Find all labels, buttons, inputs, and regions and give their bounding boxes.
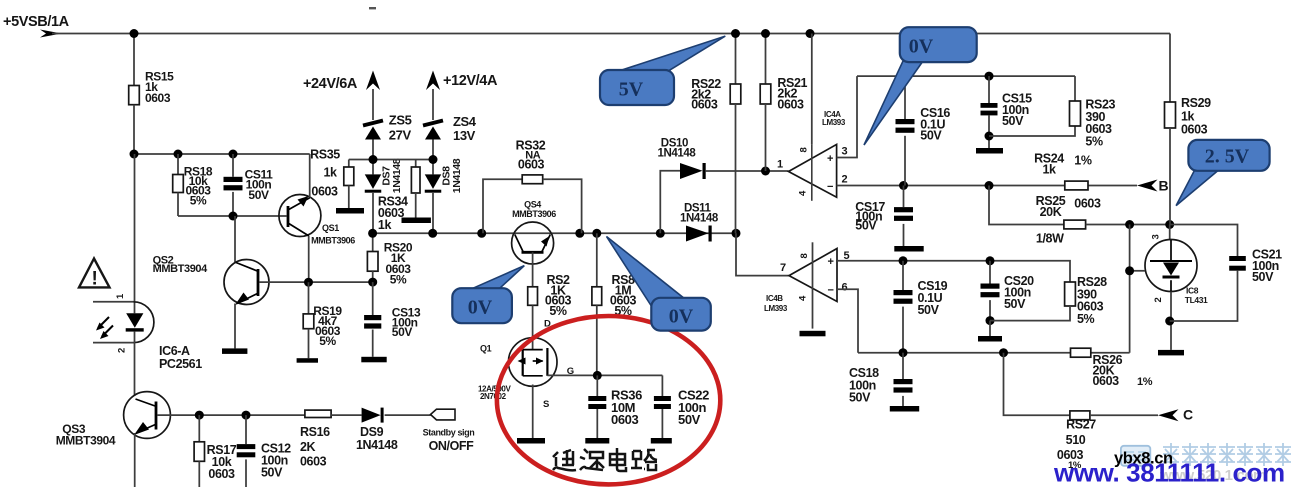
optocoupler IC6-A PC2561 — [93, 301, 135, 303]
node QS1/QS2/RS19 — [304, 278, 313, 287]
svg-text:1: 1 — [777, 159, 783, 171]
svg-text:IC8: IC8 — [1186, 286, 1199, 296]
svg-text:IC4B: IC4B — [766, 294, 783, 303]
svg-text:50V: 50V — [920, 129, 942, 143]
wire QS1 base wire — [178, 215, 287, 217]
ground under CS15 — [976, 148, 1003, 154]
svg-text:−: − — [827, 285, 833, 297]
svg-text:0603: 0603 — [518, 158, 545, 172]
svg-text:6: 6 — [842, 282, 848, 294]
svg-text:1k: 1k — [323, 166, 337, 180]
resistor RS32 — [483, 179, 522, 233]
wire standby net — [199, 414, 305, 416]
wire TL431 cathode — [1169, 225, 1171, 241]
capacitor CS11 — [232, 154, 234, 177]
svg-text:www. 3811111. com: www. 3811111. com — [1053, 458, 1285, 488]
wire QS3 emitter to edge — [134, 433, 136, 487]
svg-text:Standby sign: Standby sign — [423, 428, 475, 438]
svg-text:1k: 1k — [1042, 163, 1056, 177]
callout 0V top — [864, 61, 923, 145]
node base-wire/CS11 — [229, 212, 238, 221]
svg-text:1N4148: 1N4148 — [680, 213, 719, 225]
ground under CS13 — [361, 357, 386, 363]
wire TL431 anode — [1170, 292, 1172, 350]
wire gate wire — [547, 374, 662, 376]
resistor RS8 — [596, 233, 598, 286]
zener ZS5 27V — [363, 121, 383, 126]
transistor QS4 MMBT3906 — [512, 222, 554, 264]
resistor RS2 — [528, 287, 538, 306]
svg-text:IC6-A: IC6-A — [159, 344, 190, 358]
svg-text:!: ! — [92, 269, 98, 290]
svg-text:1N4148: 1N4148 — [658, 148, 697, 160]
svg-text:MMBT3904: MMBT3904 — [56, 434, 116, 448]
wire QS3 base wire — [157, 414, 199, 416]
svg-text:1k: 1k — [1181, 109, 1195, 123]
svg-text:1%: 1% — [1137, 376, 1153, 388]
resistor RS19 — [308, 282, 310, 314]
svg-text:2: 2 — [117, 348, 128, 353]
svg-text:50V: 50V — [1252, 270, 1274, 284]
svg-text:2N7002: 2N7002 — [480, 392, 507, 401]
diode DS9 1N4148 — [362, 408, 381, 423]
svg-text:1%: 1% — [1074, 154, 1092, 168]
node main/RS32-left — [477, 229, 486, 238]
svg-text:2. 5V: 2. 5V — [1205, 146, 1250, 168]
wire right rail drop to RS29 — [1169, 34, 1171, 103]
transistor QS2 MMBT3904 — [224, 260, 269, 305]
node main/RS8 — [592, 229, 601, 238]
wire IC4B pin6 — [837, 289, 858, 353]
svg-text:5%: 5% — [390, 273, 407, 287]
svg-text:50V: 50V — [678, 412, 701, 427]
node standby/RS17 — [195, 411, 204, 420]
node main/DS7 — [368, 229, 377, 238]
svg-text:0V: 0V — [468, 297, 493, 319]
diode DS10 1N4148 — [680, 163, 703, 179]
svg-text:0603: 0603 — [311, 185, 338, 199]
capacitor CS19 — [902, 261, 904, 290]
capacitor CS22 — [661, 375, 663, 396]
svg-text:+: + — [827, 256, 833, 268]
node +5VSB/1A input arrow — [40, 30, 62, 38]
svg-text:0603: 0603 — [145, 91, 171, 105]
svg-text:C: C — [1183, 407, 1193, 423]
svg-text:ZS5: ZS5 — [389, 113, 412, 128]
svg-text:8: 8 — [799, 253, 810, 258]
svg-text:+12V/4A: +12V/4A — [443, 73, 498, 89]
wire QS2 base to node — [259, 281, 309, 283]
ground under TL431 — [1158, 350, 1184, 356]
node pin5/CS20 — [986, 256, 995, 265]
resistor RS22 — [735, 34, 737, 85]
svg-text:PC2561: PC2561 — [159, 357, 202, 371]
node B arrow — [1137, 180, 1158, 192]
callout 0V mid — [607, 237, 685, 308]
svg-text:0603: 0603 — [208, 467, 235, 481]
svg-text:13V: 13V — [453, 128, 476, 143]
ground under CS18 — [890, 406, 919, 412]
resistor RS35 — [348, 160, 350, 168]
resistor RS26 — [1071, 348, 1091, 357]
node CS15 bottom — [985, 132, 994, 141]
svg-text:50V: 50V — [918, 303, 940, 317]
wire Q1 source — [532, 385, 534, 439]
IC8 TL431 shunt regulator — [1145, 240, 1197, 292]
node rail/RS21 — [761, 29, 770, 38]
svg-text:50V: 50V — [248, 188, 269, 202]
wire IC4B pin7 — [736, 233, 789, 275]
svg-text:MMBT3906: MMBT3906 — [512, 209, 556, 219]
wire ZS4 top — [432, 89, 434, 120]
wire 282 node wire — [309, 281, 373, 283]
wire QS4 to RS2 — [532, 252, 534, 286]
caption Yan Chi Dian Lu (delay circuit) — [553, 448, 657, 471]
resistor RS29 — [1165, 102, 1176, 128]
ground under Q1 source — [517, 438, 545, 444]
transistor QS3 MMBT3904 — [124, 392, 171, 439]
svg-text:RS29: RS29 — [1181, 96, 1211, 110]
node pin2/RS25 — [985, 181, 994, 190]
callout 2.5V — [1176, 170, 1219, 206]
node +12V/4A supply arrow — [426, 71, 440, 91]
resistor RS27 — [1004, 353, 1070, 416]
wire IC4B pin5 net — [837, 261, 1070, 282]
wire feedback net 352 — [858, 352, 1130, 354]
svg-text:RS35: RS35 — [310, 148, 340, 162]
capacitor CS18 — [902, 353, 904, 379]
svg-text:5%: 5% — [549, 304, 567, 318]
svg-text:0V: 0V — [909, 36, 934, 58]
node rail-RS15 junction — [130, 29, 139, 38]
svg-text:5V: 5V — [619, 79, 644, 101]
svg-text:QS1: QS1 — [322, 223, 339, 233]
svg-text:0603: 0603 — [1093, 374, 1120, 388]
node DS7/ZS5 — [369, 155, 378, 164]
wire RS15 column bottom — [133, 105, 135, 154]
wire QS1 collector drop — [308, 236, 310, 282]
diode DS7 1N4148 — [372, 160, 374, 175]
ground under QS2 — [222, 348, 247, 354]
svg-text:5%: 5% — [190, 193, 207, 207]
svg-text:DS9: DS9 — [360, 425, 384, 439]
node 352/CS18 — [899, 348, 908, 357]
svg-text:Q1: Q1 — [480, 344, 492, 354]
svg-text:2: 2 — [1153, 297, 1164, 302]
svg-text:0603: 0603 — [1181, 123, 1208, 137]
svg-text:3: 3 — [842, 146, 848, 158]
svg-text:1N4148: 1N4148 — [391, 158, 403, 193]
svg-text:1N4148: 1N4148 — [451, 158, 463, 193]
node C arrow — [1158, 409, 1179, 421]
svg-text:5%: 5% — [319, 334, 336, 348]
resistor RS17 — [198, 415, 200, 442]
svg-text:3: 3 — [1151, 234, 1162, 239]
svg-text:50V: 50V — [261, 466, 283, 480]
svg-text:2: 2 — [842, 174, 848, 186]
svg-text:50V: 50V — [1004, 297, 1026, 311]
wire DS9 to connector — [385, 414, 431, 416]
wire DS10 branch — [660, 171, 680, 234]
wire ZS4 to node — [432, 139, 434, 159]
capacitor CS20 — [989, 261, 991, 284]
wire RS2 to Q1 drain — [532, 305, 534, 349]
node CS20 bottom — [986, 316, 995, 325]
watermark jia dian wei xiu zi liao wang (light blue) — [1163, 443, 1291, 466]
resistor RS23 — [989, 126, 1075, 136]
svg-text:8: 8 — [799, 147, 810, 152]
wire optocoupler column — [134, 154, 136, 313]
capacitor CS21 — [1170, 225, 1238, 257]
svg-text:0603: 0603 — [691, 98, 718, 112]
svg-text:LM393: LM393 — [764, 304, 788, 313]
node 224.5/ref-column — [1125, 220, 1134, 229]
node main/DS8 — [428, 229, 437, 238]
resistor RS24 — [1065, 181, 1088, 190]
svg-text:1/8W: 1/8W — [1036, 232, 1064, 246]
diode DS11 1N4148 — [686, 226, 709, 242]
wire ZS5 top — [372, 89, 374, 120]
wire DS8 to main wire — [432, 193, 434, 233]
ground under RS19 — [297, 358, 318, 363]
svg-text:B: B — [1159, 178, 1169, 194]
wire main comparator net — [373, 232, 736, 234]
svg-text:50V: 50V — [855, 219, 877, 233]
diode DS8 1N4148 — [432, 160, 434, 175]
ground under RS35 — [336, 208, 364, 214]
wire QS2 collector — [234, 216, 236, 262]
node 76/CS15 — [985, 72, 994, 81]
resistor RS28 — [1065, 282, 1076, 306]
ground under RS36 — [585, 438, 609, 444]
node rail/RS22 — [731, 29, 740, 38]
callout 0V left — [471, 266, 525, 291]
node 224.5/TL431 — [1165, 220, 1174, 229]
wire RS8 to gate node — [596, 305, 598, 375]
wire TL431 ref — [1130, 270, 1145, 272]
svg-text:−: − — [827, 181, 833, 193]
wire QS2 emitter — [234, 304, 236, 349]
svg-text:50V: 50V — [849, 391, 871, 405]
resistor RS16 — [305, 410, 331, 417]
svg-text:+: + — [827, 153, 833, 165]
warning triangle symbol — [79, 259, 110, 288]
svg-text:0603: 0603 — [777, 97, 804, 111]
op-amp IC4B LM393 — [789, 249, 837, 302]
node DS8/ZS4 — [429, 155, 438, 164]
svg-text:1k: 1k — [378, 218, 392, 232]
resistor RS15 — [129, 86, 140, 105]
ground under CS22 — [651, 438, 672, 444]
capacitor CS17 — [903, 186, 905, 208]
svg-text:ZS4: ZS4 — [453, 114, 477, 129]
resistor RS36 (drawn as bars) — [596, 375, 598, 396]
svg-text:0603: 0603 — [300, 455, 327, 469]
ground under RS34 — [402, 218, 431, 224]
svg-text:27V: 27V — [389, 128, 412, 143]
resistor RS21 — [765, 34, 767, 85]
node pin2/CS17 — [899, 181, 908, 190]
node Standby sign connector — [431, 409, 456, 420]
capacitor CS16 — [904, 76, 906, 119]
svg-text:50V: 50V — [392, 325, 413, 339]
node RS20/CS13 — [368, 278, 377, 287]
svg-text:20K: 20K — [1040, 205, 1062, 219]
node stray mark — [369, 7, 376, 9]
node rail/IC4A power — [806, 29, 815, 38]
wire ZS5 to node — [372, 139, 374, 159]
wire RS16 to DS9 — [331, 414, 362, 416]
svg-text:0V: 0V — [669, 306, 694, 328]
svg-text:TL431: TL431 — [1185, 295, 1208, 305]
svg-text:LM393: LM393 — [822, 118, 846, 127]
node pin5/CS19 — [899, 256, 908, 265]
capacitor CS13 — [372, 282, 374, 315]
node output/RS21 — [761, 167, 770, 176]
node standby/CS12 — [242, 411, 251, 420]
op-amp IC4A LM393 — [811, 34, 813, 145]
delay circuit highlight ellipse — [497, 316, 720, 484]
svg-text:RS16: RS16 — [300, 425, 330, 439]
resistor RS20 — [372, 233, 374, 251]
svg-text:MMBT3906: MMBT3906 — [311, 236, 355, 246]
wire DS10 to comparator output — [706, 170, 789, 172]
ground under CS17 — [894, 246, 923, 252]
zener ZS4 13V — [423, 121, 443, 126]
svg-text:510: 510 — [1066, 433, 1086, 447]
node 154/CS11 — [229, 150, 238, 159]
capacitor CS15 — [988, 76, 990, 103]
wire IC4A pin2 net — [837, 185, 1137, 187]
resistor RS34 — [415, 160, 417, 168]
transistor Q1 2N7002 MOSFET — [508, 338, 557, 387]
svg-text:+24V/6A: +24V/6A — [303, 76, 358, 92]
wire ref column — [1129, 225, 1131, 353]
node anode/CS21 — [1165, 317, 1174, 326]
wire opto to QS3 — [134, 332, 136, 396]
wire reference rail 76 — [857, 75, 1075, 77]
capacitor CS12 — [245, 415, 247, 444]
node main/DS10 — [656, 229, 665, 238]
wire 154 rail — [134, 153, 310, 155]
svg-text:1N4148: 1N4148 — [356, 438, 398, 452]
wire +5VSB top rail — [52, 33, 1170, 35]
wire 159 link — [349, 159, 433, 161]
resistor RS18 — [177, 154, 179, 175]
svg-text:+5VSB/1A: +5VSB/1A — [3, 14, 70, 30]
wire RS15 column top — [133, 34, 135, 86]
node ref/TL431 — [1125, 266, 1134, 275]
svg-text:MMBT3904: MMBT3904 — [153, 263, 209, 275]
node 154/RS15 — [130, 150, 139, 159]
ground under IC4B — [800, 331, 826, 337]
svg-text:7: 7 — [780, 262, 786, 274]
svg-text:0603: 0603 — [1074, 197, 1101, 211]
svg-text:5%: 5% — [1085, 134, 1103, 148]
svg-text:ON/OFF: ON/OFF — [429, 439, 475, 453]
wire IC4A pin3 — [837, 76, 857, 157]
node main/RS32-right — [575, 229, 584, 238]
svg-text:G: G — [567, 366, 574, 377]
node main/RS22 — [732, 229, 741, 238]
node 352/RS27 — [999, 348, 1008, 357]
svg-text:RS27: RS27 — [1066, 418, 1096, 432]
node gate/RS36 — [593, 371, 602, 380]
svg-text:0603: 0603 — [611, 412, 638, 427]
node 154/RS18 — [174, 150, 183, 159]
ground under CS20 — [989, 321, 991, 336]
svg-text:S: S — [543, 399, 549, 410]
node 76/CS16 — [901, 72, 910, 81]
svg-text:2K: 2K — [300, 440, 316, 454]
svg-text:5%: 5% — [1077, 312, 1095, 326]
watermark logo square — [1121, 446, 1150, 466]
node +24V/6A supply arrow — [366, 71, 380, 91]
resistor RS25 — [989, 186, 1064, 225]
callout 5V — [616, 36, 725, 73]
wire DS7 to main wire — [372, 193, 374, 233]
svg-text:50V: 50V — [1002, 114, 1024, 128]
transistor QS1 MMBT3906 — [279, 195, 321, 237]
